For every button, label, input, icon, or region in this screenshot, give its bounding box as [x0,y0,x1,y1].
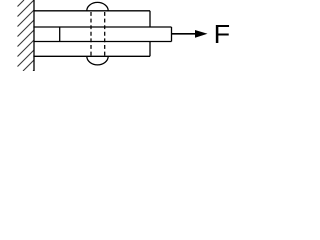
wall face line [33,0,35,71]
force arrow shaft [172,33,197,35]
upper plate right end [149,11,151,27]
bar right end [171,27,173,42]
wall hatching [18,0,35,71]
upper plate top edge [33,10,150,12]
bolt shank hidden line right [104,12,106,56]
bolt head top dome [87,2,108,10]
lower plate right end [149,42,151,57]
bar left end [59,27,61,42]
shared edge: lower plate top / bar bottom [33,41,171,43]
bolt head bottom dome [87,56,108,65]
diagram: double-shear bolted joint fixed to wall, force F pulling right [0,0,240,71]
bolt shank hidden line left [90,12,92,56]
force arrowhead [195,30,208,38]
svg-text:F: F [214,19,231,49]
lower plate bottom edge [33,55,150,57]
shared edge: upper plate bottom / bar top [33,26,171,28]
